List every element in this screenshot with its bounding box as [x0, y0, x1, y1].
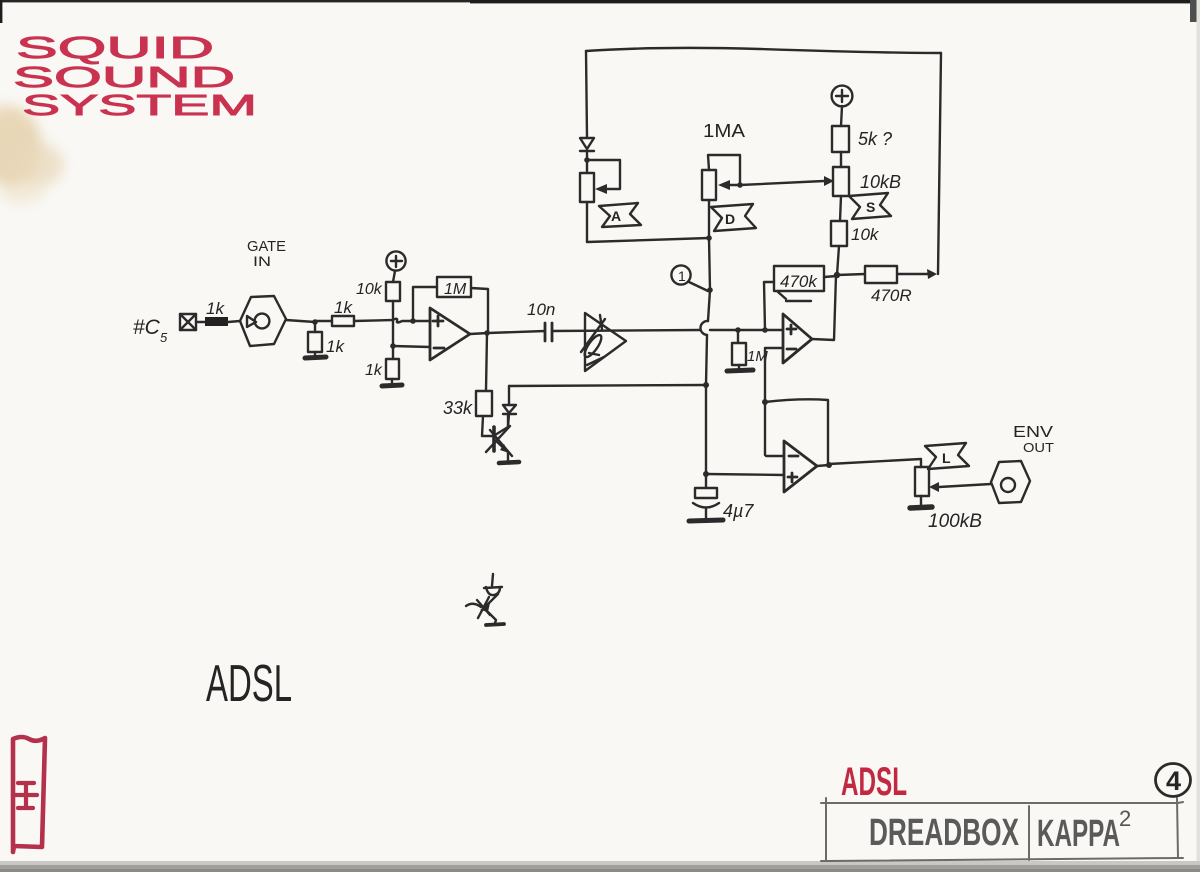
decay pot D body	[702, 170, 716, 200]
svg-text:1: 1	[678, 268, 686, 284]
ground (Q2)	[486, 624, 504, 625]
svg-text:1k: 1k	[326, 337, 345, 356]
op-amp U3	[784, 441, 817, 492]
node E junction (1M mid)	[735, 327, 741, 333]
node G junction	[703, 382, 709, 388]
node J junction (C2 top)	[703, 471, 709, 477]
svg-text:S: S	[866, 199, 875, 215]
attack pot wiper loop	[587, 160, 620, 189]
resistor R8 1M (to ground)	[737, 330, 739, 343]
Q1 emitter arrowhead	[500, 444, 509, 453]
svg-text:2: 2	[1119, 806, 1131, 831]
wire node C down to R5	[392, 346, 394, 359]
banner L	[925, 443, 969, 469]
svg-text:1k: 1k	[206, 299, 225, 318]
capacitor C1 10n	[545, 323, 552, 341]
svg-text:100kB: 100kB	[928, 511, 982, 532]
wire +V2 to R9	[841, 106, 842, 126]
circled node 1	[671, 265, 708, 291]
resistor R7 33k	[476, 391, 492, 416]
banner A	[599, 203, 641, 227]
svg-text:ENV: ENV	[1013, 424, 1053, 441]
power +V (circled plus)	[386, 251, 405, 270]
loop bottom-left wire	[587, 238, 709, 242]
wire R5 to ground	[391, 379, 393, 384]
wire U2 output up to node M	[812, 275, 836, 340]
wire node A down to R2	[314, 322, 316, 332]
svg-text:470R: 470R	[871, 286, 912, 305]
svg-text:1MA: 1MA	[703, 121, 745, 141]
node A junction	[312, 319, 318, 325]
wire J1 to R1	[196, 321, 205, 323]
node C junction (minus input)	[390, 343, 396, 349]
resistor R11 470k (boxed)	[774, 266, 824, 291]
resistor R9 5k	[832, 126, 849, 152]
VCA triangle A1	[581, 313, 626, 371]
red stamp box bottom-left	[13, 737, 45, 852]
ground (R5)	[382, 385, 402, 386]
wire R11 to node M	[824, 276, 837, 277]
wire node A to R3	[315, 320, 332, 322]
svg-text:33k: 33k	[443, 398, 473, 418]
resistor R5 1k	[386, 359, 399, 379]
loop right edge wire	[938, 53, 941, 274]
decay pot wiper loop	[708, 155, 740, 185]
resistor R12 470R	[865, 266, 897, 283]
connector J1 (crossed box)	[180, 314, 196, 330]
wire node B up to R6 feedback	[413, 287, 437, 321]
wire U3 minus to node N vertical	[766, 455, 784, 457]
svg-text:IN: IN	[253, 253, 271, 269]
svg-text:L: L	[942, 450, 951, 466]
pencil title box	[821, 798, 1183, 861]
sustain pot S 10kB body	[833, 167, 849, 196]
node M junction (470k/470R)	[834, 272, 840, 278]
resistor R3 1k (series)	[332, 316, 354, 326]
sketch doodle Q2	[466, 574, 502, 623]
wire R12 to loop right edge	[897, 273, 931, 275]
svg-text:10k: 10k	[356, 281, 383, 298]
node B junction	[410, 318, 416, 324]
wire U1 out down to R7	[486, 333, 487, 390]
svg-text:10kB: 10kB	[860, 172, 901, 192]
loop top edge wire	[586, 48, 941, 53]
wire U3 output	[817, 465, 829, 466]
svg-text:10k: 10k	[851, 225, 880, 244]
wire node M to R12	[837, 274, 865, 275]
resistor R6 1M (boxed, feedback)	[437, 277, 471, 297]
wire node B up to R4	[392, 301, 394, 320]
level pot 100kB body	[915, 467, 929, 496]
node K junction (D1 cathode)	[584, 157, 590, 163]
wire hop over horizontal	[700, 321, 708, 335]
loop left edge wire	[586, 51, 587, 137]
svg-text:470k: 470k	[780, 272, 818, 291]
ground (R8)	[727, 370, 753, 371]
diode D1 (attack)	[580, 138, 594, 173]
ENV OUT jack (hexagon)	[991, 461, 1030, 503]
resistor R2 1k (shunt)	[308, 332, 322, 352]
wire node B down to minus node	[392, 321, 394, 346]
wire D wiper to S pot wiper	[740, 181, 824, 185]
scanner edge top	[0, 0, 1200, 2]
wire U2 minus down to node N	[765, 348, 783, 455]
R12 arrowhead	[927, 269, 937, 279]
level pot wiper arrowhead	[929, 482, 939, 492]
wire hop to U2 plus input	[710, 329, 783, 331]
diode D2	[503, 386, 516, 427]
title SQUID SOUND SYSTEM (red marker)	[13, 30, 257, 122]
svg-text:DREADBOX: DREADBOX	[869, 812, 1019, 854]
node N junction	[762, 399, 768, 405]
wire node N to U3 output loop	[765, 399, 828, 464]
right scan edge	[1197, 0, 1200, 872]
node F junction (U2 plus)	[762, 327, 768, 333]
ground (level pot)	[910, 507, 932, 508]
svg-text:4: 4	[1166, 766, 1181, 796]
ground (C2)	[689, 520, 723, 521]
svg-text:1M: 1M	[444, 281, 467, 298]
wire pot D to bottom edge	[708, 200, 710, 238]
attack pot A body	[580, 173, 594, 202]
svg-text:ADSL: ADSL	[841, 760, 907, 804]
resistor R4 10k	[386, 282, 400, 301]
Q2 arrowhead	[480, 603, 490, 612]
R11 wiper mark	[778, 292, 811, 301]
resistor R1 1k (filled)	[205, 317, 228, 326]
svg-text:1k: 1k	[334, 298, 353, 317]
wire U2 plus node up to R11	[764, 282, 774, 330]
wire C2 node to U3 plus	[706, 474, 784, 475]
node D junction (U1 out)	[484, 330, 490, 336]
resistor R10 10k	[831, 221, 847, 246]
svg-text:ADSL: ADSL	[206, 655, 292, 713]
node I junction (circled 1 tap)	[707, 287, 713, 293]
wire U1 output	[470, 333, 488, 334]
wire R7 to Q1 base	[482, 416, 493, 436]
wire S pot to R10	[840, 196, 841, 221]
svg-text:OUT: OUT	[1023, 440, 1054, 455]
main vertical wire with hop	[708, 238, 710, 321]
wire R1 to gate jack	[228, 321, 240, 322]
transistor Q1	[486, 415, 512, 461]
wire U1 out to C1	[488, 331, 545, 333]
wire R4 to +V	[393, 271, 395, 282]
red stamp symbol	[15, 783, 37, 808]
svg-text:4µ7: 4µ7	[723, 501, 754, 521]
wire R10 to node M	[837, 246, 839, 275]
wire R8 to ground	[738, 365, 740, 369]
svg-text:1k: 1k	[365, 362, 383, 379]
node L junction (D wiper)	[737, 182, 743, 188]
wire C1 to VCA triangle and through to hop	[552, 330, 700, 331]
svg-text:D: D	[725, 211, 735, 227]
svg-text:#C: #C	[133, 316, 161, 339]
ground (Q1)	[499, 462, 519, 463]
wire R2 to ground	[314, 352, 316, 356]
wire R6 to U1 output	[471, 288, 488, 333]
power +V2 (circled plus)	[832, 86, 853, 107]
wire U3 out to level pot	[829, 459, 921, 467]
wire node C to U1 minus	[393, 346, 430, 347]
svg-text:5k ?: 5k ?	[858, 129, 892, 149]
circled page number 4	[1156, 764, 1191, 797]
svg-text:A: A	[611, 208, 621, 224]
scanner edge bottom	[0, 861, 1200, 872]
capacitor C2 4u7 (polarized)	[693, 474, 719, 519]
ground (R2)	[305, 357, 326, 358]
op-amp U2	[783, 314, 812, 363]
node O junction (U3 out)	[826, 462, 832, 468]
svg-text:SYSTEM: SYSTEM	[22, 90, 257, 122]
wire node B to U1 plus	[413, 320, 430, 322]
wire pot A to bottom edge	[586, 202, 588, 242]
svg-text:10n: 10n	[527, 300, 555, 319]
wire R9 to S pot	[840, 152, 842, 167]
wire R3 to node B	[354, 319, 413, 323]
banner D	[711, 204, 756, 231]
svg-text:SQUID: SQUID	[16, 30, 214, 65]
wire wiper to jack	[939, 484, 991, 487]
banner S	[849, 193, 891, 219]
node H junction (box bottom)	[706, 235, 712, 241]
svg-text:5: 5	[160, 330, 168, 345]
S pot wiper arrowhead	[824, 176, 834, 186]
wire jack to node A	[286, 320, 315, 322]
wire pot to ground	[920, 496, 922, 506]
svg-text:KAPPA: KAPPA	[1037, 813, 1120, 855]
op-amp U1	[430, 308, 470, 360]
paper stain top-left	[0, 104, 64, 204]
wire D2 node to main vertical	[509, 385, 706, 386]
gate input jack (hexagon with diode+circle)	[240, 296, 286, 346]
scanner corner top-right	[1190, 0, 1200, 22]
